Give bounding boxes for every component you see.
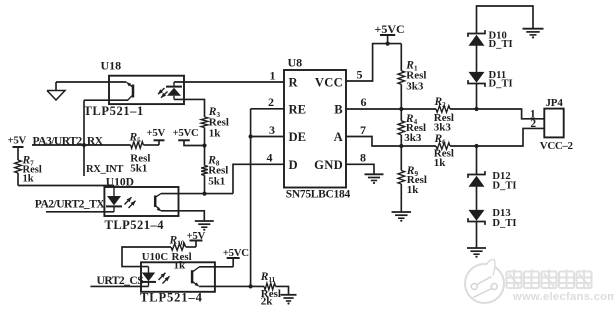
pin 6 number [361, 95, 367, 109]
U8 pin label B [334, 102, 343, 116]
wire: R3 to node [204, 128, 206, 146]
U10C phototransistor [192, 267, 199, 287]
pin 2 number [268, 95, 274, 109]
wire: U18 LED cathode to U8 pin 1 (R) [174, 81, 284, 83]
svg-text:6: 6 [361, 95, 367, 109]
D11 label [489, 70, 507, 81]
U8 pin label D [289, 158, 298, 172]
R7 value 1k [23, 173, 34, 184]
JP4 value VCC-2 [540, 140, 574, 152]
wire: ground to U18 phototransistor emitter [56, 81, 127, 83]
wire: U10C collector to +5VC [199, 266, 233, 268]
U10D light arrows [125, 197, 136, 208]
wire: D13 to ground [476, 221, 478, 248]
R6 value Resl [434, 147, 454, 159]
SN75LBC184 label [286, 189, 351, 201]
TLP521-4 label (U10D) [105, 218, 165, 232]
svg-text:D_TI: D_TI [489, 39, 513, 50]
D10 value D_TI [489, 39, 513, 50]
optocoupler U10D box [104, 187, 178, 216]
wire: U8 pin 7 (A) step [346, 137, 436, 147]
svg-text:VCC–2: VCC–2 [540, 140, 574, 152]
svg-text:1: 1 [270, 68, 276, 82]
svg-text:1k: 1k [209, 128, 222, 140]
label URT2_CS [97, 274, 144, 287]
resistor R11 [264, 283, 275, 290]
optocoupler U18 box [109, 76, 184, 104]
wire: R7 to U10D LED anode [18, 185, 114, 187]
power +5VC (top) [375, 22, 405, 44]
svg-text:D_TI: D_TI [492, 218, 516, 229]
R3 value Resl [209, 116, 229, 128]
svg-text:3k3: 3k3 [404, 132, 422, 144]
resistor R4 [398, 109, 405, 146]
R11 value Resl [261, 288, 281, 300]
R5 value 5k1 [130, 162, 147, 174]
wire: U8 pin 5 (VCC) to rail [346, 44, 401, 81]
R1 value Resl [406, 70, 426, 82]
power +5V (at R5) [147, 127, 166, 140]
svg-text:1k: 1k [434, 157, 447, 169]
JP4 pin 1 number [530, 108, 536, 120]
ground (R9) [392, 212, 412, 222]
resistor R9 [398, 146, 405, 212]
R1 value 3k3 [406, 80, 424, 92]
pin 4 number [267, 151, 273, 165]
wire: B line to JP4 pin 1 [450, 109, 544, 119]
svg-text:GND: GND [314, 158, 343, 172]
wire: U10D emitter to ground [161, 211, 204, 221]
node: +5VC rail [386, 42, 390, 46]
label RX_INT [86, 164, 123, 175]
svg-text:U18: U18 [101, 59, 122, 73]
ground (left of U18) [47, 82, 65, 100]
svg-text:TLP521–4: TLP521–4 [105, 218, 165, 232]
U10C light arrows [159, 273, 170, 284]
svg-text:RE: RE [289, 102, 307, 116]
svg-text:D_TI: D_TI [489, 79, 513, 90]
wire: D10-D11 [476, 45, 478, 72]
resistor R2 [436, 106, 450, 113]
U8 pin label A [334, 130, 343, 144]
R1 designator [405, 59, 418, 72]
wire: U18 collector to PA3 net [84, 99, 128, 101]
TLP521-4 label (U10C) [140, 291, 203, 305]
resistor R5 [131, 142, 144, 149]
wire: up to U8 pin 4 [233, 164, 284, 193]
wire: R10 to U10C LED anode [122, 247, 171, 267]
wire: R5 to +5V [143, 140, 159, 145]
ground (top right) [523, 29, 544, 39]
R10 designator [169, 234, 185, 247]
U8 pin label RE [289, 102, 307, 116]
D10 label [489, 31, 507, 42]
ground (D13) [467, 248, 486, 258]
svg-text:8: 8 [360, 151, 366, 165]
wire: D12-D13 [476, 186, 478, 210]
svg-text:R6: R6 [434, 133, 447, 146]
node: CS enable junction [249, 284, 253, 288]
svg-text:R10: R10 [169, 234, 185, 247]
R9 designator [406, 165, 419, 178]
resistor R1 [398, 44, 405, 109]
wire: U18 LED anode to R3 [174, 99, 205, 117]
svg-text:2: 2 [530, 118, 536, 130]
svg-text:4: 4 [267, 151, 273, 165]
svg-text:+5V: +5V [147, 127, 166, 139]
diode D12 [468, 171, 485, 187]
R6 designator [434, 133, 447, 146]
diode D10 [468, 30, 485, 46]
watermark logo and text [465, 260, 614, 303]
node: R4/R9 on A [399, 144, 403, 148]
R4 designator [405, 113, 418, 126]
svg-text:R11: R11 [260, 271, 276, 284]
svg-text:U10D: U10D [106, 177, 134, 189]
connector JP4 box [544, 109, 563, 138]
wire: +5VC to R3/R8 node [184, 140, 205, 145]
svg-text:2k: 2k [261, 295, 274, 307]
svg-text:7: 7 [360, 123, 366, 137]
resistor R8 [201, 146, 208, 194]
node: RX junction [82, 143, 86, 147]
R8 designator [207, 154, 220, 167]
ground (R11) [281, 295, 297, 305]
D13 label [492, 208, 510, 219]
pin 5 number [357, 67, 363, 81]
R9 value 1k [407, 184, 420, 196]
R4 value Resl [406, 122, 426, 134]
node: DE junction [249, 134, 253, 138]
U18 phototransistor [127, 82, 133, 100]
wire: U18 collector down to RX node [83, 100, 85, 176]
ground (U8 GND) [365, 174, 384, 184]
svg-text:2: 2 [268, 95, 274, 109]
svg-text:5k1: 5k1 [208, 175, 225, 187]
R2 value Resl [434, 112, 454, 124]
wire: PA2/URT2_TX line [46, 211, 114, 213]
svg-text:1k: 1k [407, 184, 420, 196]
U10D LED (cathode down) [106, 186, 122, 212]
node: R3/R8/+5VC [202, 143, 206, 147]
U10C LED (cathode down) [141, 267, 156, 287]
R10 value Resl [172, 251, 192, 263]
resistor R7 [15, 147, 22, 186]
svg-text:PA2/URT2_TX: PA2/URT2_TX [35, 198, 106, 211]
resistor R3 [201, 117, 208, 128]
U10D phototransistor [155, 194, 161, 212]
node: R8 bottom / U10D collector [202, 192, 206, 196]
svg-text:B: B [334, 102, 343, 116]
svg-text:3k3: 3k3 [406, 80, 424, 92]
svg-text:+5V: +5V [8, 134, 27, 146]
wire: D11 to B line [476, 83, 478, 109]
svg-text:SN75LBC184: SN75LBC184 [286, 189, 351, 201]
svg-text:1k: 1k [174, 260, 187, 272]
R9 value Resl [407, 174, 427, 186]
wire: U10D collector to D pin net [161, 193, 233, 195]
wire: URT2_CS line [90, 285, 148, 287]
wire: U10C emitter to R11 [199, 285, 264, 287]
R5 value Resl [130, 152, 150, 164]
svg-text:TLP521–4: TLP521–4 [140, 291, 203, 305]
power +5V (R10) [187, 230, 206, 247]
svg-text:U8: U8 [288, 56, 303, 70]
D11 value D_TI [489, 79, 513, 90]
R3 value 1k [209, 128, 222, 140]
wire: PA3/URT2_RX line [32, 144, 131, 146]
wire: U8 pin 6 (B) line [346, 108, 436, 110]
wire: top rail to ground [477, 6, 534, 34]
IC U8 box [284, 70, 346, 188]
svg-text:+5VC: +5VC [375, 22, 405, 36]
power +5VC (mid) [173, 127, 199, 140]
R7 value Resl [23, 165, 42, 176]
node: R1/R4 on B [399, 107, 403, 111]
JP4 pin 2 number [530, 118, 536, 130]
wire: U8 pin 2 (RE) [251, 108, 284, 110]
svg-text:R2: R2 [434, 96, 447, 109]
R2 designator [434, 96, 447, 109]
TLP521-1 label [84, 104, 144, 118]
ground (U10D emitter) [195, 221, 214, 231]
R10 value 1k [174, 260, 187, 272]
svg-text:D: D [289, 158, 298, 172]
wire: A line to JP4 pin 2 [450, 128, 544, 146]
power +5VC (U10C) [223, 247, 249, 267]
U8 pin label DE [289, 130, 307, 144]
svg-text:5: 5 [357, 67, 363, 81]
R8 value 5k1 [208, 175, 225, 187]
wire: U8 pin 8 (GND) [346, 164, 374, 174]
svg-text:+5VC: +5VC [173, 127, 199, 139]
resistor R6 [436, 143, 450, 150]
U8 pin label GND [314, 158, 343, 172]
R2 value 3k3 [434, 121, 452, 133]
svg-text:DE: DE [289, 130, 307, 144]
resistor R10 [171, 244, 196, 251]
svg-text:VCC: VCC [315, 76, 343, 90]
label PA2/URT2_TX [35, 198, 106, 211]
pin 1 number [270, 68, 276, 82]
R7 designator [22, 155, 35, 168]
D12 value D_TI [492, 180, 516, 191]
U18 LED (cathode up) [166, 82, 182, 99]
diode D13 [468, 210, 485, 225]
U10C label [142, 251, 168, 263]
wire: U8 pin 3 (DE) [251, 136, 284, 138]
U18 label [101, 59, 122, 73]
U8 label [288, 56, 303, 70]
R4 value 3k3 [404, 132, 422, 144]
svg-text:3k3: 3k3 [434, 121, 452, 133]
svg-text:R5: R5 [129, 132, 142, 145]
JP4 label [546, 97, 564, 109]
svg-text:3: 3 [269, 123, 275, 137]
pin 8 number [360, 151, 366, 165]
D13 value D_TI [492, 218, 516, 229]
svg-text:www.elecfans.com: www.elecfans.com [512, 291, 614, 303]
D12 label [492, 171, 510, 182]
node: A/D12 junction [474, 144, 478, 148]
wire: A line to D12 [476, 146, 478, 175]
pin 3 number [269, 123, 275, 137]
R8 value Resl [208, 165, 228, 177]
U10D label [106, 177, 134, 189]
diode D11 [468, 72, 485, 87]
svg-text:U10C: U10C [142, 251, 168, 263]
R3 designator [208, 106, 221, 119]
svg-text:URT2_CS: URT2_CS [97, 274, 144, 287]
R11 value 2k [261, 295, 274, 307]
wire: RE/DE/CS vertical [250, 109, 252, 287]
wire: R11 to ground [276, 286, 289, 294]
pin 7 number [360, 123, 366, 137]
svg-text:5k1: 5k1 [130, 162, 147, 174]
svg-text:Resl: Resl [209, 116, 229, 128]
svg-text:D_TI: D_TI [492, 180, 516, 191]
svg-text:JP4: JP4 [546, 97, 564, 109]
R6 value 1k [434, 157, 447, 169]
label PA3/URT2_RX [33, 135, 104, 148]
svg-text:TLP521–1: TLP521–1 [84, 104, 144, 118]
U8 pin label VCC [315, 76, 343, 90]
svg-text:1k: 1k [23, 173, 34, 184]
R11 designator [260, 271, 276, 284]
svg-text:RX_INT: RX_INT [86, 164, 123, 175]
U18 light arrows [158, 88, 168, 98]
optocoupler U10C box [141, 262, 215, 292]
node: B/D10 junction [474, 107, 478, 111]
U8 pin label R [289, 76, 299, 90]
svg-text:R: R [289, 76, 299, 90]
power +5V (left) [8, 134, 27, 147]
R5 designator [129, 132, 142, 145]
svg-text:A: A [334, 130, 343, 144]
